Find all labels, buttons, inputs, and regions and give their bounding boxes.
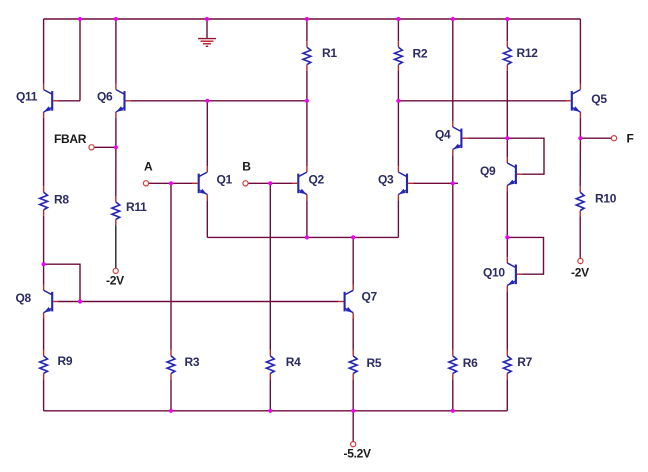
wire R10 bottom to -2V (579, 217, 581, 259)
svg-text:Q4: Q4 (435, 127, 451, 141)
resistor R1 (303, 41, 311, 70)
svg-text:Q9: Q9 (480, 164, 496, 178)
transistor Q9 (507, 157, 523, 191)
wire R2 bottom (397, 71, 399, 101)
svg-text:Q2: Q2 (309, 172, 325, 186)
wire left rail Q11 emitter to R8 (43, 118, 45, 186)
node dot NOR node R1 bottom (305, 99, 309, 103)
svg-text:Q11: Q11 (16, 89, 38, 103)
svg-text:Q1: Q1 (217, 172, 233, 186)
transistor Q10 (507, 257, 523, 291)
wire F node to R10 (579, 138, 581, 186)
wire top VCC rail (44, 18, 581, 20)
wire node OR: R2 bottom to Q5 base (398, 100, 565, 102)
wire FBAR node to R11 (115, 147, 117, 196)
svg-text:R9: R9 (58, 354, 73, 368)
wire Q2 emitter vertical (306, 200, 308, 237)
node dot top rail Q4 collector (451, 17, 455, 21)
wire Q3 collector vertical (397, 101, 399, 167)
wire R9 bottom (43, 379, 45, 410)
resistor R12 (503, 41, 511, 70)
svg-text:R7: R7 (517, 355, 532, 369)
wire B terminal lead (248, 182, 270, 184)
wire Q7 collector vertical (352, 237, 354, 284)
svg-text:R10: R10 (595, 192, 617, 206)
transistor Q5 (565, 84, 581, 118)
svg-text:A: A (144, 159, 153, 173)
wire R11 to -2V terminal (black) (115, 225, 117, 268)
svg-text:Q3: Q3 (378, 172, 394, 186)
node dot bottom rail R6 (451, 409, 455, 413)
wire R4 bottom (269, 379, 271, 410)
node dot top rail R12 (505, 17, 509, 21)
resistor R5 (349, 350, 357, 380)
wire R12 bottom to Q4 base node (506, 71, 508, 139)
terminal -2V right (578, 258, 583, 263)
wire A terminal lead (149, 182, 171, 184)
terminal FBAR (89, 145, 94, 150)
node dot A input (169, 181, 173, 185)
resistor R10 (576, 186, 584, 216)
svg-text:Q8: Q8 (16, 291, 32, 305)
wire Q11 base to rail horizontal (59, 100, 81, 102)
wire Q11 base vertical (79, 19, 81, 101)
transistor Q1 (192, 166, 208, 200)
wire node NOR: Q6 base to R1 bottom (131, 100, 307, 102)
wire B node vertical to R4 (269, 183, 271, 350)
wire Q9 emitter vertical (506, 191, 508, 237)
wire A node vertical to R3 (170, 183, 172, 350)
node dot top rail x80 (78, 17, 82, 21)
terminal -2V left (113, 268, 118, 273)
wire Q4 emitter vertical (452, 155, 454, 183)
node dot Q8 base / Q7 base line (78, 299, 82, 303)
transistor Q4 (453, 121, 469, 155)
resistor R2 (395, 41, 403, 70)
wire Q4 collector vertical (452, 19, 454, 121)
wire Q5 emitter to F node (579, 118, 581, 138)
transistor Q11 (44, 84, 60, 118)
wire R6 top (452, 183, 454, 350)
transistor Q6 (116, 84, 132, 118)
wire Q9 collector loop (507, 138, 544, 174)
transistor Q3 (398, 166, 414, 200)
wire Q2 base lead (270, 182, 292, 184)
svg-text:Q7: Q7 (362, 290, 378, 304)
svg-text:R11: R11 (126, 200, 147, 214)
node dot B input (268, 181, 272, 185)
node dot top rail ground (205, 17, 209, 21)
terminal B (243, 181, 248, 186)
svg-text:FBAR: FBAR (54, 132, 87, 146)
wire Q3 base to Q4 emitter node (414, 182, 458, 184)
node dot F output (578, 136, 582, 140)
svg-text:-2V: -2V (571, 266, 589, 280)
wire left rail to Q8 collector (43, 264, 45, 284)
wire R2 top (397, 19, 399, 41)
node dot top rail x116 Q6 collector (114, 17, 118, 21)
wire R7 bottom (506, 379, 508, 410)
wire Q10 collector vertical (506, 237, 508, 257)
svg-text:Q6: Q6 (97, 89, 113, 103)
wire Q5 collector (579, 19, 581, 84)
wire Q10 emitter to R7 (506, 291, 508, 350)
wire left rail to Q11 collector (43, 19, 45, 84)
node dot FBAR (114, 145, 118, 149)
wire emitter rail (207, 236, 398, 238)
wire Q4 base to R12 node (469, 137, 508, 139)
node dot top rail R1 (305, 17, 309, 21)
node dot Q7 collector (351, 235, 355, 239)
wire R3 bottom (170, 379, 172, 410)
resistor R4 (266, 350, 274, 380)
wire -5.2V terminal lead (352, 411, 354, 442)
svg-text:R12: R12 (517, 46, 539, 60)
wire Q3 emitter vertical (397, 200, 399, 237)
wire Q10 collector loop (507, 237, 543, 274)
wire Q8 collector loop (44, 264, 80, 301)
svg-text:R6: R6 (463, 356, 478, 370)
wire R6 bottom (452, 379, 454, 410)
transistor Q2 (291, 166, 307, 200)
wire FBAR terminal lead (94, 146, 116, 148)
node dot Q9 emitter / Q10 (505, 235, 509, 239)
wire R8 bottom to Q8 node (43, 216, 45, 264)
ground (198, 19, 216, 46)
svg-text:Q5: Q5 (591, 92, 607, 106)
node dot bottom rail R4 (268, 409, 272, 413)
svg-text:Q10: Q10 (483, 266, 505, 280)
resistor R3 (167, 350, 175, 380)
wire Q1 emitter vertical (206, 200, 208, 237)
node dot NOR node Q1 collector (205, 99, 209, 103)
terminal -5.2V (351, 442, 356, 447)
svg-text:R3: R3 (185, 355, 200, 369)
wire Q6 emitter to FBAR node (115, 118, 117, 148)
resistor R8 (40, 186, 48, 216)
svg-text:R5: R5 (367, 356, 382, 370)
node dot Q2 emitter (305, 235, 309, 239)
wire Q2 collector vertical (306, 101, 308, 167)
wire Q8 base lead (59, 301, 81, 303)
svg-text:R1: R1 (322, 46, 337, 60)
node dot Q8 collector loop (42, 262, 46, 266)
wire Q1 collector vertical (206, 101, 208, 167)
wire R1 top (306, 19, 308, 41)
wire R1 bottom (306, 71, 308, 101)
resistor R7 (503, 350, 511, 380)
node dot top rail R2 (396, 17, 400, 21)
wire Q9 collector vertical (506, 138, 508, 157)
svg-text:R2: R2 (413, 47, 428, 61)
svg-text:B: B (242, 159, 251, 173)
node dot Q4 base / R12 (505, 136, 509, 140)
transistor Q7 (338, 285, 354, 319)
resistor R6 (449, 350, 457, 380)
svg-text:-2V: -2V (106, 274, 124, 288)
svg-text:R4: R4 (286, 355, 301, 369)
wire Q8 emitter to R9 (43, 319, 45, 350)
resistor R9 (40, 350, 48, 380)
resistor R11 (112, 196, 120, 225)
node dot bottom rail R3 (169, 409, 173, 413)
wire F output lead (580, 137, 611, 139)
node dot OR node R2 bottom (396, 99, 400, 103)
wire Q8 node to Q7 base (80, 301, 338, 303)
wire bottom rail (44, 410, 508, 412)
wire Q1 base lead (171, 182, 192, 184)
wire R12 top (506, 19, 508, 41)
node dot Q3 base / Q4 emitter (451, 181, 455, 185)
svg-text:R8: R8 (54, 193, 69, 207)
wire Q6 collector (115, 19, 117, 84)
transistor Q8 (44, 285, 60, 319)
terminal A (143, 181, 148, 186)
node dot bottom rail R5 / -5.2V (351, 409, 355, 413)
terminal F (611, 136, 616, 141)
wire R5 bottom (352, 379, 354, 410)
svg-text:F: F (627, 132, 634, 146)
wire Q7 emitter to R5 (352, 319, 354, 350)
svg-text:-5.2V: -5.2V (344, 447, 371, 461)
